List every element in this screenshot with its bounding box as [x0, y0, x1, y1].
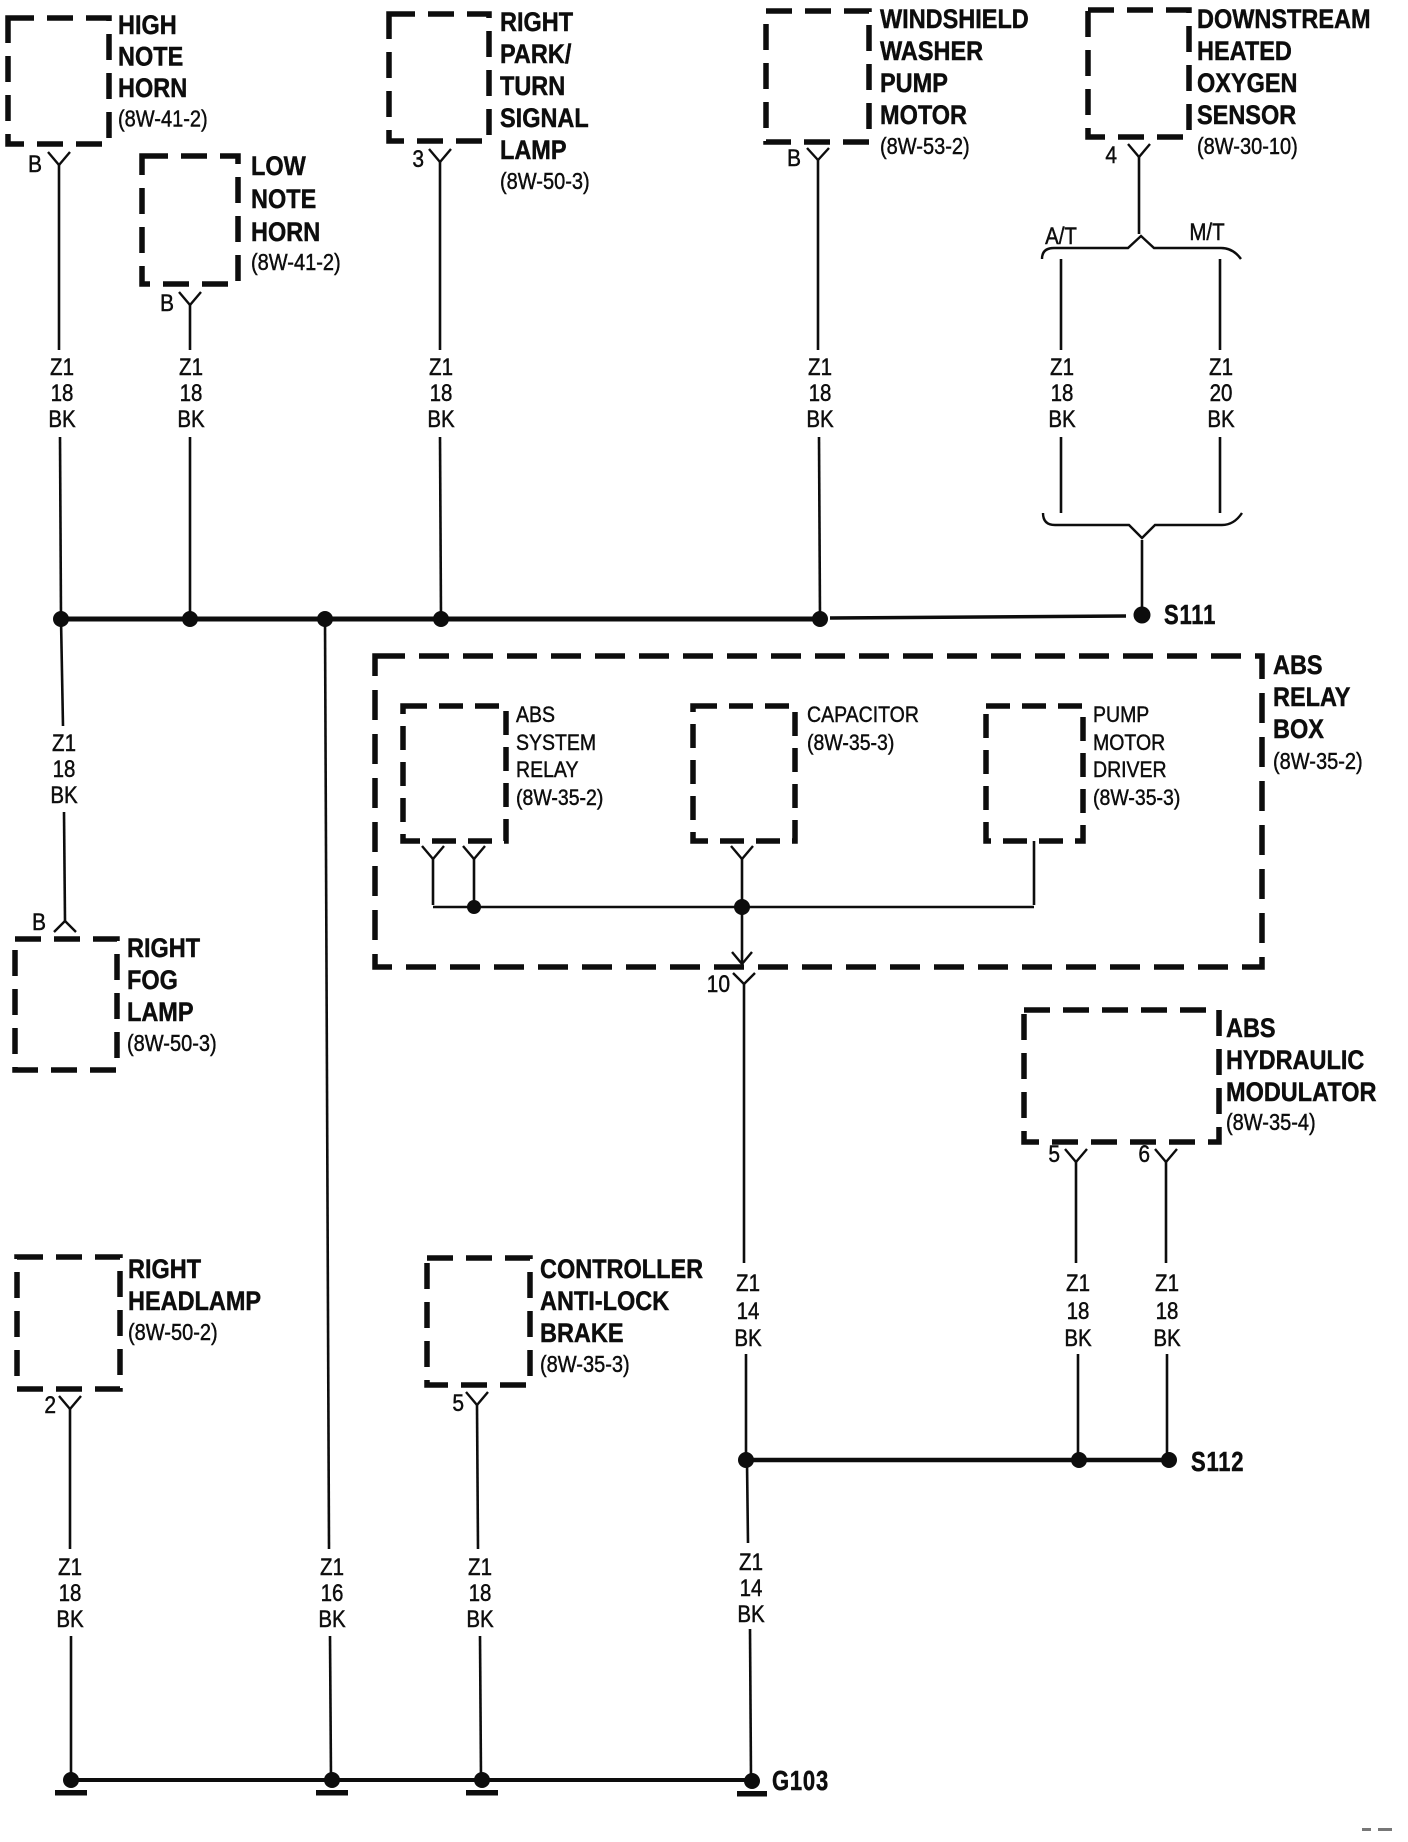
svg-text:CAPACITOR: CAPACITOR	[807, 703, 919, 728]
svg-text:BK: BK	[1153, 1325, 1181, 1352]
svg-text:BK: BK	[737, 1601, 765, 1628]
svg-text:Z1: Z1	[52, 730, 76, 757]
svg-text:ABS: ABS	[516, 703, 555, 728]
svg-text:Z1: Z1	[736, 1270, 760, 1297]
svg-text:B: B	[787, 145, 801, 172]
svg-text:RIGHT: RIGHT	[127, 934, 201, 964]
svg-text:DRIVER: DRIVER	[1093, 758, 1167, 783]
svg-text:SENSOR: SENSOR	[1197, 101, 1296, 131]
svg-text:OXYGEN: OXYGEN	[1197, 69, 1298, 99]
svg-text:18: 18	[59, 1580, 82, 1607]
svg-text:MOTOR: MOTOR	[1093, 731, 1165, 756]
svg-text:(8W-41-2): (8W-41-2)	[251, 249, 341, 276]
svg-text:5: 5	[452, 1390, 464, 1417]
svg-text:(8W-35-4): (8W-35-4)	[1226, 1109, 1316, 1136]
svg-text:G103: G103	[772, 1765, 829, 1796]
svg-text:(8W-35-2): (8W-35-2)	[1273, 748, 1363, 775]
svg-text:HEADLAMP: HEADLAMP	[128, 1287, 261, 1317]
svg-text:HORN: HORN	[251, 218, 320, 248]
svg-text:Z1: Z1	[320, 1554, 344, 1581]
svg-text:PUMP: PUMP	[1093, 703, 1149, 728]
svg-text:(8W-35-3): (8W-35-3)	[807, 731, 894, 756]
svg-text:3: 3	[412, 146, 424, 173]
svg-text:MODULATOR: MODULATOR	[1226, 1078, 1376, 1108]
svg-text:HEATED: HEATED	[1197, 37, 1292, 67]
svg-text:Z1: Z1	[739, 1549, 763, 1576]
svg-text:RELAY: RELAY	[516, 758, 578, 783]
svg-text:BK: BK	[56, 1606, 84, 1633]
svg-text:10: 10	[707, 971, 730, 998]
svg-text:WASHER: WASHER	[880, 37, 983, 67]
svg-text:RIGHT: RIGHT	[128, 1255, 202, 1285]
svg-text:BK: BK	[318, 1606, 346, 1633]
svg-text:BOX: BOX	[1273, 715, 1324, 745]
svg-text:(8W-35-2): (8W-35-2)	[516, 786, 603, 811]
svg-text:18: 18	[51, 380, 74, 407]
svg-text:S111: S111	[1164, 599, 1216, 630]
svg-text:18: 18	[53, 756, 76, 783]
svg-text:BK: BK	[1048, 406, 1076, 433]
svg-text:B: B	[32, 909, 46, 936]
svg-text:BK: BK	[1207, 406, 1235, 433]
svg-text:(8W-50-3): (8W-50-3)	[500, 168, 590, 195]
svg-text:BK: BK	[50, 782, 78, 809]
svg-text:2: 2	[44, 1392, 56, 1419]
svg-text:DOWNSTREAM: DOWNSTREAM	[1197, 5, 1371, 35]
svg-text:18: 18	[180, 380, 203, 407]
svg-text:MOTOR: MOTOR	[880, 101, 967, 131]
svg-text:Z1: Z1	[468, 1554, 492, 1581]
svg-text:ANTI-LOCK: ANTI-LOCK	[540, 1287, 670, 1317]
svg-text:(8W-50-3): (8W-50-3)	[127, 1030, 217, 1057]
svg-text:18: 18	[1067, 1298, 1090, 1325]
svg-text:(8W-35-3): (8W-35-3)	[1093, 786, 1180, 811]
svg-text:(8W-35-3): (8W-35-3)	[540, 1351, 630, 1378]
svg-text:18: 18	[430, 380, 453, 407]
svg-text:ABS: ABS	[1273, 651, 1323, 681]
svg-text:TURN: TURN	[500, 72, 565, 102]
svg-text:WINDSHIELD: WINDSHIELD	[880, 5, 1029, 35]
svg-text:LAMP: LAMP	[127, 998, 194, 1028]
svg-text:HIGH: HIGH	[118, 11, 177, 41]
svg-text:B: B	[28, 151, 42, 178]
svg-text:Z1: Z1	[1066, 1270, 1090, 1297]
svg-text:BK: BK	[48, 406, 76, 433]
svg-text:B: B	[160, 290, 174, 317]
svg-text:Z1: Z1	[50, 354, 74, 381]
svg-text:A/T: A/T	[1045, 223, 1077, 250]
svg-text:Z1: Z1	[179, 354, 203, 381]
svg-text:HORN: HORN	[118, 74, 187, 104]
svg-text:(8W-41-2): (8W-41-2)	[118, 105, 208, 132]
svg-text:(8W-50-2): (8W-50-2)	[128, 1319, 218, 1346]
svg-text:(8W-30-10): (8W-30-10)	[1197, 133, 1298, 160]
svg-text:18: 18	[1156, 1298, 1179, 1325]
svg-text:NOTE: NOTE	[251, 185, 316, 215]
svg-text:20: 20	[1210, 380, 1233, 407]
svg-text:14: 14	[737, 1298, 760, 1325]
svg-text:BRAKE: BRAKE	[540, 1319, 624, 1349]
svg-text:BK: BK	[1064, 1325, 1092, 1352]
svg-text:Z1: Z1	[1050, 354, 1074, 381]
svg-text:HYDRAULIC: HYDRAULIC	[1226, 1046, 1364, 1076]
svg-text:Z1: Z1	[1209, 354, 1233, 381]
svg-text:RELAY: RELAY	[1273, 683, 1351, 713]
svg-text:S112: S112	[1191, 1446, 1244, 1477]
svg-text:PUMP: PUMP	[880, 69, 948, 99]
svg-text:SYSTEM: SYSTEM	[516, 731, 596, 756]
svg-text:BK: BK	[806, 406, 834, 433]
svg-text:6: 6	[1138, 1141, 1150, 1168]
svg-text:4: 4	[1105, 142, 1117, 169]
svg-text:18: 18	[469, 1580, 492, 1607]
svg-text:PARK/: PARK/	[500, 40, 571, 70]
svg-text:Z1: Z1	[429, 354, 453, 381]
svg-text:BK: BK	[177, 406, 205, 433]
svg-text:Z1: Z1	[1155, 1270, 1179, 1297]
svg-text:16: 16	[321, 1580, 344, 1607]
svg-text:BK: BK	[466, 1606, 494, 1633]
svg-text:18: 18	[1051, 380, 1074, 407]
svg-text:5: 5	[1048, 1141, 1060, 1168]
svg-text:SIGNAL: SIGNAL	[500, 104, 589, 134]
svg-text:Z1: Z1	[58, 1554, 82, 1581]
svg-text:BK: BK	[427, 406, 455, 433]
svg-text:FOG: FOG	[127, 966, 178, 996]
svg-text:Z1: Z1	[808, 354, 832, 381]
svg-text:LAMP: LAMP	[500, 136, 567, 166]
svg-text:ABS: ABS	[1226, 1014, 1276, 1044]
svg-text:14: 14	[740, 1575, 763, 1602]
svg-text:(8W-53-2): (8W-53-2)	[880, 133, 970, 160]
svg-text:BK: BK	[734, 1325, 762, 1352]
svg-text:RIGHT: RIGHT	[500, 8, 574, 38]
svg-text:NOTE: NOTE	[118, 42, 183, 72]
svg-text:M/T: M/T	[1189, 219, 1224, 246]
svg-text:LOW: LOW	[251, 152, 306, 182]
svg-text:18: 18	[809, 380, 832, 407]
svg-text:CONTROLLER: CONTROLLER	[540, 1255, 703, 1285]
